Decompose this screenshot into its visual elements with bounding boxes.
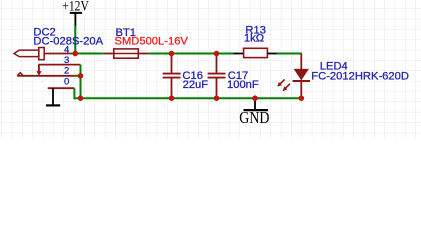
LED4 emission arrow 1 [277,79,284,86]
pin 2 line [17,75,75,77]
junction dot C17 bottom [214,95,220,101]
junction dot C17 top [214,51,220,57]
wire BT1 to R13 top rail [149,53,234,55]
LED4 cathode pin [300,81,302,98]
capacitor C16 top pin [171,54,173,73]
LED4 cathode bar [293,80,310,82]
capacitor C17 plates [208,74,226,78]
capacitor C17 bottom pin [216,79,218,99]
wire pin2 stub [75,75,81,77]
wire trunk pin2 junction down to bottom rail [80,76,82,98]
resistor R13 left pin [234,53,244,55]
pin 2 caret contact [17,73,23,76]
svg-text:4: 4 [64,44,69,55]
pin 0 line [48,87,75,89]
fuse BT1 right pin [138,53,148,55]
svg-text:0: 0 [64,77,69,88]
svg-text:1kΩ: 1kΩ [244,32,264,44]
fuse BT1 body [114,49,139,58]
chassis bar symbol on pin 0 [46,88,60,105]
pin 4 line [44,53,71,55]
pin 3 switch arrow [36,65,41,76]
connector DC2 barrel plug body [14,50,39,57]
svg-text:22uF: 22uF [183,79,209,91]
wire R13 to LED corner [277,53,302,55]
wire pin4 to BT1 [71,53,103,55]
junction dot pin4/+12V [73,51,79,57]
power port +12V bar symbol [70,13,82,26]
svg-text:GND: GND [239,108,269,127]
LED4 anode pin [300,54,302,70]
capacitor C17 top pin [216,54,218,73]
capacitor C16 plates [163,74,181,78]
junction dot pin2 [78,73,84,79]
junction dot C16 bottom [169,95,175,101]
svg-text:100nF: 100nF [227,79,259,91]
wire bottom rail [81,97,302,99]
svg-text:SMD500L-16V: SMD500L-16V [115,36,189,48]
junction dot bottom-left [78,95,84,101]
svg-text:3: 3 [64,55,69,66]
junction dot C16 top [169,51,175,57]
svg-text:FC-2012HRK-620D: FC-2012HRK-620D [311,71,409,83]
junction dot GND [252,95,258,101]
connector DC2 collar rectangle [39,48,44,60]
wire +12V stem [74,26,76,54]
svg-text:2: 2 [64,65,69,76]
LED4 triangle [294,69,309,81]
resistor R13 body [244,48,268,57]
junction dot LED cathode [299,95,305,101]
capacitor C16 bottom pin [171,79,173,99]
wire pin0 corner [74,88,80,98]
pin 3 line [38,64,80,66]
LED4 emission arrow 2 [283,84,290,91]
resistor R13 right pin [267,53,277,55]
fuse BT1 left pin [103,53,114,55]
power port GND [244,98,269,110]
wire pin3 drop to pin2 junction [80,65,82,76]
